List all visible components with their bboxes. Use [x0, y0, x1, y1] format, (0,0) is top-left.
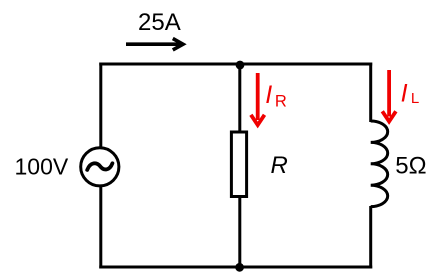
wire: left vertical upper (top corner to source top): [99, 63, 102, 148]
svg-text:I: I: [265, 81, 272, 109]
wire: right vertical upper (top corner to inductor top): [369, 63, 372, 123]
svg-text:R: R: [271, 152, 288, 179]
wire: middle vertical upper (top node to resistor): [238, 64, 241, 133]
svg-text:100V: 100V: [15, 153, 69, 179]
svg-text:I: I: [401, 80, 408, 108]
wire: left vertical lower (source bottom to bottom corner): [99, 186, 102, 269]
wire: right vertical lower (inductor bottom to bottom corner): [369, 206, 372, 269]
source V1: sine symbol: [87, 163, 112, 170]
source V1 100V AC: circle: [81, 148, 119, 186]
wire: top horizontal (node between source, R and L): [99, 63, 372, 66]
svg-text:5Ω: 5Ω: [395, 152, 426, 179]
arrow: IL branch current (red, downward): [382, 70, 396, 122]
wire: bottom horizontal: [99, 266, 372, 269]
svg-text:L: L: [411, 90, 419, 107]
arrow: 25A current direction (black, rightward): [126, 39, 183, 50]
wire: middle vertical lower (resistor to bottom node): [238, 197, 241, 268]
resistor R body: [231, 132, 246, 197]
node: top junction dot: [236, 61, 245, 70]
inductor L1 coil: [371, 121, 388, 207]
svg-text:R: R: [275, 93, 287, 111]
arrow: IR branch current (red, downward): [251, 73, 265, 125]
node: bottom junction dot: [235, 263, 244, 272]
svg-text:25A: 25A: [138, 9, 181, 36]
